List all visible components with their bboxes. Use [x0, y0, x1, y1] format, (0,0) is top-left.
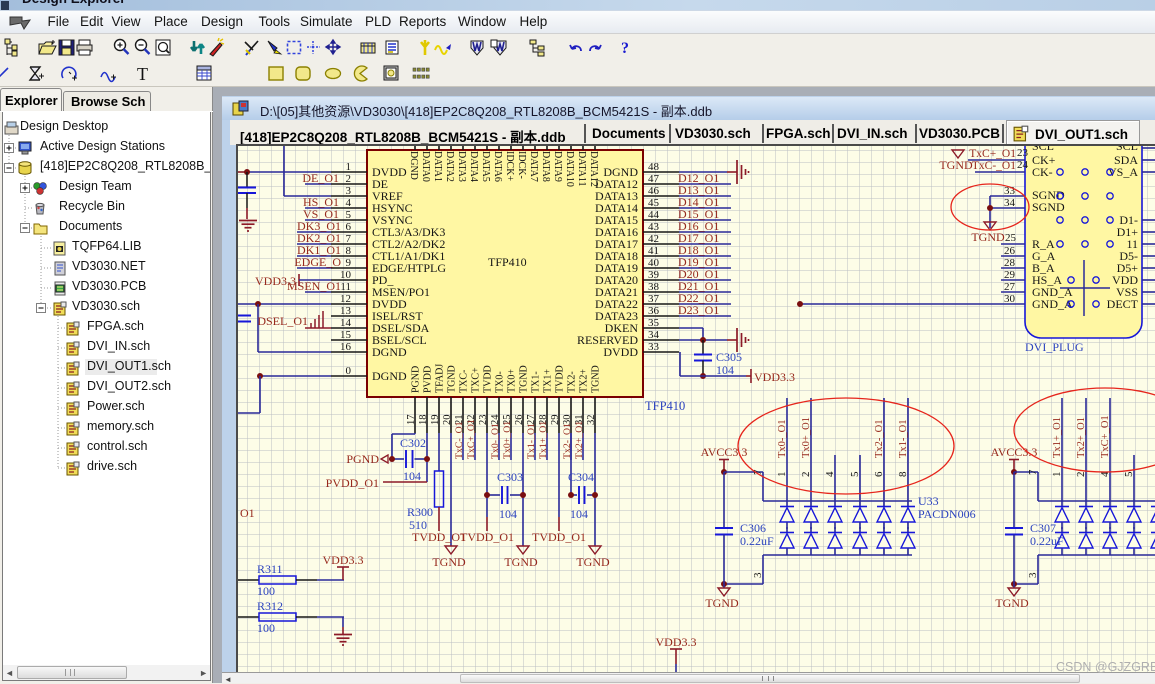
svg-text:SCL: SCL [1032, 146, 1054, 153]
svg-text:SCL: SCL [1116, 146, 1138, 153]
svg-text:5: 5 [1123, 471, 1135, 477]
svg-text:23: 23 [1017, 147, 1029, 159]
svg-text:DATA9: DATA9 [552, 151, 563, 182]
svg-text:TX0+: TX0+ [507, 369, 518, 393]
svg-text:C307: C307 [1030, 521, 1056, 535]
svg-text:VDD3.3: VDD3.3 [323, 553, 364, 567]
svg-text:DATA3: DATA3 [456, 151, 467, 182]
svg-text:39: 39 [648, 269, 660, 281]
svg-text:DECT: DECT [1107, 297, 1139, 311]
svg-text:IDCK+: IDCK+ [504, 151, 515, 181]
svg-text:TxC-_O1: TxC-_O1 [972, 160, 1016, 172]
svg-text:0.22uF: 0.22uF [740, 534, 774, 548]
svg-text:Tx2+_O1: Tx2+_O1 [1076, 417, 1087, 458]
svg-text:9: 9 [346, 257, 352, 269]
svg-text:TGND: TGND [519, 365, 530, 393]
svg-text:13: 13 [340, 305, 352, 317]
svg-text:104: 104 [716, 363, 734, 377]
svg-text:5: 5 [849, 471, 861, 477]
svg-text:Tx0-_O1: Tx0-_O1 [490, 423, 501, 459]
svg-text:100: 100 [257, 621, 275, 635]
svg-text:DATA4: DATA4 [468, 151, 479, 182]
svg-text:DVI_PLUG: DVI_PLUG [1025, 340, 1084, 354]
svg-text:37: 37 [648, 293, 660, 305]
svg-text:VDD3.3: VDD3.3 [656, 635, 697, 649]
svg-text:33: 33 [648, 341, 660, 353]
svg-text:25: 25 [1005, 232, 1017, 244]
svg-text:TVDD: TVDD [483, 365, 494, 393]
svg-text:TxC+_O1: TxC+_O1 [1100, 415, 1111, 458]
svg-text:Tx2-_O1: Tx2-_O1 [874, 420, 885, 459]
svg-text:VS_A: VS_A [1108, 165, 1138, 179]
svg-text:0.22uF: 0.22uF [1030, 534, 1064, 548]
svg-text:0: 0 [346, 365, 352, 377]
svg-text:26: 26 [514, 415, 525, 426]
svg-text:DATA6: DATA6 [492, 151, 503, 182]
svg-text:DATA11: DATA11 [576, 151, 587, 187]
svg-text:TVDD_O1: TVDD_O1 [460, 530, 514, 544]
svg-text:14: 14 [340, 317, 352, 329]
svg-text:30: 30 [1004, 293, 1016, 305]
svg-text:3: 3 [752, 572, 764, 578]
svg-text:TX1-: TX1- [531, 371, 542, 393]
svg-text:R300: R300 [407, 505, 433, 519]
svg-text:11: 11 [340, 281, 351, 293]
svg-text:12: 12 [340, 293, 351, 305]
svg-text:Tx0+_O1: Tx0+_O1 [801, 417, 812, 458]
svg-text:41: 41 [648, 245, 659, 257]
svg-text:38: 38 [648, 281, 660, 293]
svg-text:3: 3 [346, 185, 352, 197]
svg-text:U33: U33 [918, 494, 939, 508]
svg-text:PGND: PGND [346, 452, 379, 466]
svg-text:CK-: CK- [1032, 165, 1053, 179]
svg-text:15: 15 [340, 329, 352, 341]
svg-text:1: 1 [776, 472, 788, 478]
svg-text:104: 104 [570, 507, 588, 521]
svg-text:TX1+: TX1+ [543, 369, 554, 393]
svg-text:TGND: TGND [939, 158, 973, 172]
svg-text:TFP410: TFP410 [645, 399, 685, 413]
svg-text:TGND: TGND [576, 555, 610, 569]
svg-text:104: 104 [499, 507, 517, 521]
svg-text:DSEL_O1: DSEL_O1 [257, 314, 308, 328]
svg-text:3: 3 [1027, 572, 1039, 578]
svg-text:43: 43 [648, 221, 660, 233]
svg-text:DATA1: DATA1 [432, 151, 443, 182]
svg-text:TGND: TGND [971, 230, 1005, 244]
svg-text:O1: O1 [240, 506, 255, 520]
svg-text:TX2+: TX2+ [579, 369, 590, 393]
svg-text:Tx1-_O1: Tx1-_O1 [898, 420, 909, 459]
svg-text:TGND: TGND [447, 365, 458, 393]
svg-text:47: 47 [648, 173, 660, 185]
svg-text:C303: C303 [497, 470, 523, 484]
svg-text:Tx1+_O1: Tx1+_O1 [538, 421, 549, 459]
svg-text:R311: R311 [257, 562, 283, 576]
svg-text:DE_O1: DE_O1 [302, 171, 339, 185]
svg-text:45: 45 [648, 197, 660, 209]
svg-text:5: 5 [346, 209, 352, 221]
svg-text:C304: C304 [568, 470, 594, 484]
svg-text:35: 35 [648, 317, 660, 329]
svg-text:DGND: DGND [408, 151, 419, 180]
svg-text:34: 34 [1004, 197, 1016, 209]
svg-text:C306: C306 [740, 521, 766, 535]
svg-text:19: 19 [430, 415, 441, 426]
svg-text:6: 6 [346, 221, 352, 233]
svg-text:VDD3.3: VDD3.3 [754, 370, 795, 384]
svg-text:29: 29 [1004, 269, 1016, 281]
svg-text:D23_O1: D23_O1 [678, 303, 719, 317]
svg-text:10: 10 [340, 269, 352, 281]
svg-text:TxC+_O1: TxC+_O1 [466, 419, 477, 459]
svg-text:TXC+: TXC+ [471, 367, 482, 393]
svg-text:PGND: PGND [411, 366, 422, 393]
svg-text:PVDD_O1: PVDD_O1 [326, 476, 379, 490]
svg-text:TVDD_O1: TVDD_O1 [412, 530, 466, 544]
svg-text:TGND: TGND [432, 555, 466, 569]
svg-text:16: 16 [340, 341, 352, 353]
svg-text:46: 46 [648, 185, 660, 197]
svg-text:2: 2 [800, 472, 812, 478]
svg-text:Tx1+_O1: Tx1+_O1 [1052, 417, 1063, 458]
svg-text:48: 48 [648, 161, 660, 173]
svg-text:TX2-: TX2- [567, 371, 578, 393]
svg-text:8: 8 [346, 245, 352, 257]
svg-text:1: 1 [1051, 472, 1063, 478]
svg-text:DVDD: DVDD [603, 345, 638, 359]
svg-text:DATA5: DATA5 [480, 151, 491, 182]
svg-text:34: 34 [648, 329, 660, 341]
svg-text:DATA2: DATA2 [444, 151, 455, 182]
svg-text:24: 24 [1017, 159, 1029, 171]
svg-text:PACDN006: PACDN006 [918, 507, 976, 521]
svg-text:SGND: SGND [1032, 200, 1065, 214]
svg-text:AVCC3.3: AVCC3.3 [991, 445, 1038, 459]
svg-text:4: 4 [346, 197, 352, 209]
svg-text:IDCK-: IDCK- [516, 151, 527, 179]
svg-text:Tx0+_O1: Tx0+_O1 [502, 421, 513, 459]
svg-text:EDGE_O: EDGE_O [294, 255, 341, 269]
svg-text:Tx2+_O1: Tx2+_O1 [574, 421, 585, 459]
svg-text:20: 20 [442, 415, 453, 426]
svg-text:18: 18 [418, 415, 429, 426]
svg-text:TFP410: TFP410 [488, 255, 527, 269]
svg-text:1: 1 [346, 161, 352, 173]
svg-text:4: 4 [824, 471, 836, 477]
svg-text:R312: R312 [257, 599, 283, 613]
svg-text:VDD3.3: VDD3.3 [255, 274, 296, 288]
svg-text:23: 23 [478, 415, 489, 426]
svg-text:TGND: TGND [504, 555, 538, 569]
svg-text:DGND: DGND [372, 369, 407, 383]
svg-text:TxC+_O1: TxC+_O1 [969, 148, 1016, 160]
svg-text:TGND: TGND [705, 596, 739, 610]
svg-text:8: 8 [897, 471, 909, 477]
svg-text:DATA7: DATA7 [528, 151, 539, 182]
svg-text:104: 104 [403, 469, 421, 483]
svg-text:36: 36 [648, 305, 660, 317]
svg-text:7: 7 [346, 233, 352, 245]
svg-text:Tx0-_O1: Tx0-_O1 [777, 420, 788, 459]
svg-text:100: 100 [257, 584, 275, 598]
svg-text:TX0-: TX0- [495, 371, 506, 393]
svg-text:PVDD: PVDD [423, 366, 434, 393]
svg-text:27: 27 [1004, 281, 1016, 293]
svg-text:T: T [137, 64, 148, 84]
svg-text:TXC-: TXC- [459, 370, 470, 393]
svg-text:TxC-_O1: TxC-_O1 [454, 421, 465, 459]
svg-text:DGND: DGND [372, 345, 407, 359]
svg-text:6: 6 [873, 471, 885, 477]
svg-text:17: 17 [406, 415, 417, 426]
svg-text:29: 29 [550, 415, 561, 426]
svg-text:2: 2 [1075, 472, 1087, 478]
svg-text:TGND: TGND [995, 596, 1029, 610]
svg-text:2: 2 [346, 173, 352, 185]
svg-text:DATA8: DATA8 [540, 151, 551, 182]
svg-text:26: 26 [1004, 245, 1016, 257]
svg-text:TFADJ: TFADJ [435, 364, 446, 393]
svg-text:DATA10: DATA10 [564, 151, 575, 187]
svg-text:C302: C302 [400, 436, 426, 450]
svg-text:DATA0: DATA0 [420, 151, 431, 182]
svg-text:42: 42 [648, 233, 659, 245]
svg-text:TVDD: TVDD [555, 365, 566, 393]
svg-text:32: 32 [586, 415, 597, 426]
svg-text:44: 44 [648, 209, 660, 221]
svg-text:40: 40 [648, 257, 660, 269]
svg-text:28: 28 [1004, 257, 1016, 269]
svg-text:7: 7 [1027, 469, 1039, 475]
svg-text:Tx1-_O1: Tx1-_O1 [526, 423, 537, 459]
svg-text:TGND: TGND [591, 365, 602, 393]
svg-text:?: ? [621, 40, 629, 57]
svg-text:TVDD_O1: TVDD_O1 [532, 530, 586, 544]
svg-text:GND_A: GND_A [1032, 297, 1073, 311]
svg-text:C305: C305 [716, 350, 742, 364]
svg-text:DATA12: DATA12 [588, 151, 599, 187]
